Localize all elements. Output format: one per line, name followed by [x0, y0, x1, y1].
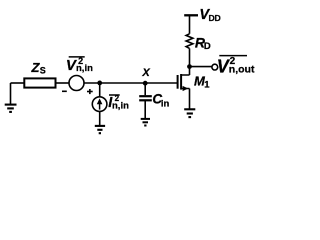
svg-text:DD: DD	[209, 13, 221, 23]
svg-text:D: D	[204, 41, 211, 52]
svg-text:in: in	[161, 98, 170, 109]
svg-text:X: X	[141, 67, 150, 79]
svg-text:S: S	[40, 66, 46, 76]
svg-text:n,in: n,in	[112, 101, 129, 112]
svg-text:n,out: n,out	[229, 64, 255, 76]
svg-text:1: 1	[204, 79, 210, 90]
svg-text:n,in: n,in	[76, 63, 93, 74]
